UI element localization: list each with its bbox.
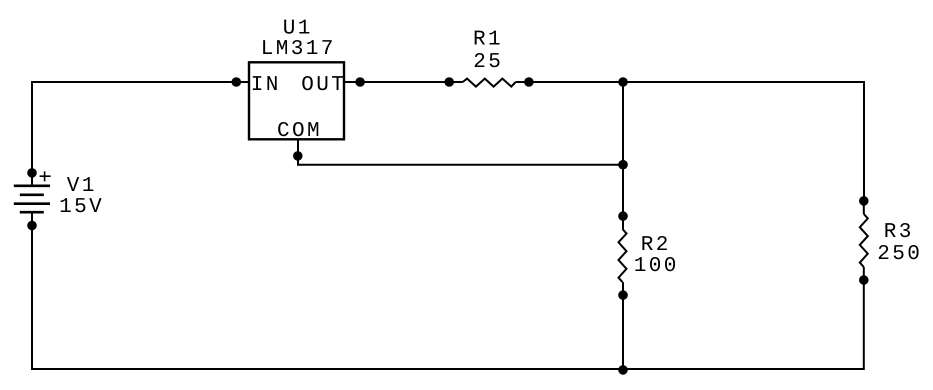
node: dot at R3 bottom terminal bbox=[859, 275, 869, 285]
wire: node A down to R2 top terminal bbox=[622, 82, 624, 216]
wire: R1 to top node A and over to right rail bbox=[516, 82, 864, 201]
resistor R3 zigzag bbox=[860, 214, 868, 267]
svg-text:LM317: LM317 bbox=[261, 38, 336, 61]
svg-text:R2: R2 bbox=[641, 234, 671, 257]
svg-text:IN: IN bbox=[251, 74, 281, 97]
wire: R2 bottom terminal to bottom rail bbox=[622, 295, 624, 369]
node: dot at R2 bottom terminal bbox=[618, 290, 628, 300]
wire: R3 bottom terminal down right rail to bottom rail bbox=[32, 212, 864, 369]
svg-text:R3: R3 bbox=[884, 221, 914, 244]
battery V1 plate short bottom bbox=[20, 211, 44, 214]
svg-text:V1: V1 bbox=[67, 175, 97, 198]
resistor R2 zigzag bbox=[619, 229, 627, 282]
node: dot at R3 top terminal bbox=[859, 196, 869, 206]
battery V1 negative terminal dot bbox=[27, 221, 37, 231]
svg-text:25: 25 bbox=[473, 51, 503, 74]
node: dot at R1 left terminal bbox=[444, 77, 454, 87]
wire: R2 zigzag stubs bbox=[622, 216, 624, 295]
svg-text:COM: COM bbox=[277, 120, 322, 143]
node: junction dot where COM wire meets R2 branch bbox=[618, 160, 628, 170]
node: junction dot at U1 IN pin bbox=[232, 77, 242, 87]
svg-text:OUT: OUT bbox=[301, 74, 346, 97]
wire: R3 zigzag stubs bbox=[863, 201, 865, 280]
wire: battery V1 + terminal up left rail and across to U1 IN pin bbox=[32, 82, 249, 186]
svg-text:15V: 15V bbox=[59, 196, 104, 219]
node: junction dot at U1 OUT pin bbox=[355, 77, 365, 87]
regulator U1 LM317 body box bbox=[249, 62, 344, 139]
wire: U1 COM pin down and right to adjust node bbox=[298, 140, 623, 165]
svg-text:100: 100 bbox=[634, 255, 679, 278]
node: dot at R2 top terminal bbox=[618, 211, 628, 221]
node: dot at R1 right terminal bbox=[524, 77, 534, 87]
node: junction dot where R2 branch meets bottom rail bbox=[618, 365, 628, 375]
svg-text:R1: R1 bbox=[473, 29, 503, 52]
battery V1 positive terminal dot bbox=[27, 168, 37, 178]
battery V1 plate long lower bbox=[14, 202, 50, 205]
wire: U1 OUT pin to resistor R1 bbox=[344, 81, 463, 83]
resistor R1 zigzag bbox=[463, 79, 516, 87]
battery V1 plus sign bbox=[40, 171, 51, 181]
node A: junction dot where R2 branch meets top wire bbox=[618, 77, 628, 87]
node: dot on COM pin stub bbox=[293, 151, 303, 161]
svg-text:250: 250 bbox=[877, 243, 922, 266]
battery V1 plate long top bbox=[14, 185, 50, 188]
battery V1 plate short upper bbox=[20, 194, 44, 197]
